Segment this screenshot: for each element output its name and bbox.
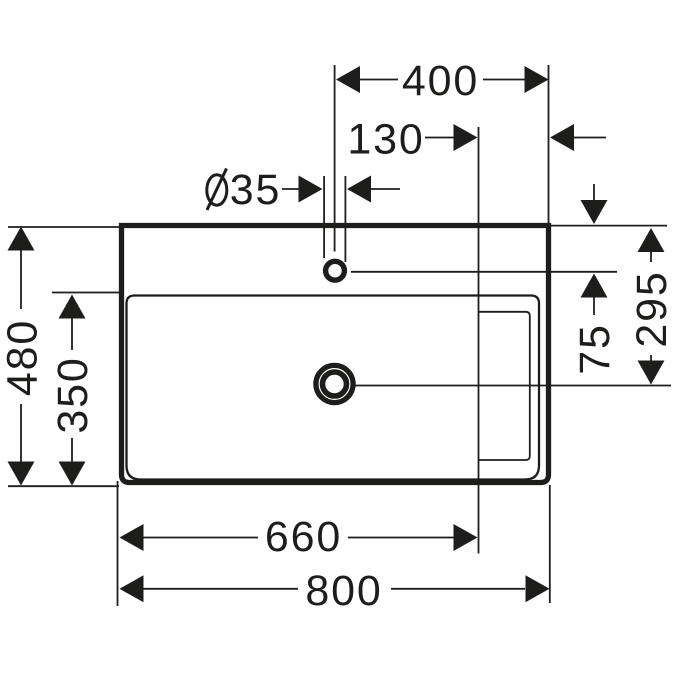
dimension 800 line [144, 588, 299, 590]
dimension 400 line [360, 79, 398, 81]
dimension d35 leader lines [282, 188, 299, 190]
extension line tap hole right [344, 176, 346, 262]
arrow d35 right [347, 176, 371, 203]
svg-text:480: 480 [0, 319, 47, 396]
extension line top right horizontal [551, 225, 667, 227]
extension line bottom left vertical [117, 481, 119, 606]
arrow 75 top [581, 200, 608, 224]
washbasin outer outline [122, 226, 549, 483]
extension line bottom right vertical [549, 485, 551, 603]
arrow 350 top [59, 295, 86, 319]
arrow 130 right [550, 124, 574, 151]
arrow 800 left [120, 575, 144, 602]
arrow 480 bottom [8, 462, 35, 486]
extension line right edge vertical [548, 65, 550, 223]
arrow 480 top [8, 227, 35, 251]
basin bowl rim [127, 296, 540, 480]
dimension 75 line [593, 184, 595, 200]
arrow 75 bottom [581, 274, 608, 298]
dimension 480 line [20, 251, 22, 310]
arrow 295 top [638, 228, 665, 252]
extension line 660/130 vertical [478, 127, 480, 554]
arrow 350 bottom [59, 462, 86, 486]
svg-text:35: 35 [230, 166, 281, 214]
svg-text:400: 400 [402, 57, 479, 105]
dimension 350 line [71, 319, 73, 351]
extension line bowl top left horizontal [52, 292, 120, 294]
dimension 660 line [144, 537, 259, 539]
bowl shelf ledge [479, 312, 530, 460]
svg-text:130: 130 [347, 116, 424, 164]
svg-text:660: 660 [265, 513, 342, 561]
dimension 130 leader lines [425, 137, 454, 139]
extension line drain level horizontal [356, 385, 672, 387]
arrow 130 left [454, 124, 478, 151]
svg-text:295: 295 [628, 270, 675, 347]
arrow 660 right [454, 524, 478, 551]
arrow 295 bottom [638, 361, 665, 385]
extension line tap level horizontal [351, 271, 617, 273]
arrow 400 right [525, 66, 549, 93]
arrow 800 right [526, 575, 550, 602]
arrow d35 left [299, 176, 323, 203]
extension line tap centre vertical [334, 65, 336, 252]
arrow 400 left [336, 66, 360, 93]
extension line bottom left horizontal [8, 485, 119, 487]
arrow 660 left [120, 524, 144, 551]
svg-text:350: 350 [49, 356, 97, 433]
tap hole [326, 261, 345, 280]
extension line tap hole left [323, 176, 325, 258]
extension line top left horizontal [8, 226, 119, 228]
label d35 [207, 169, 227, 211]
drain inner ring [323, 372, 347, 396]
drain outer ring [316, 365, 353, 402]
svg-text:800: 800 [305, 567, 382, 615]
dimension 295 line [650, 252, 652, 262]
svg-text:75: 75 [571, 323, 619, 374]
